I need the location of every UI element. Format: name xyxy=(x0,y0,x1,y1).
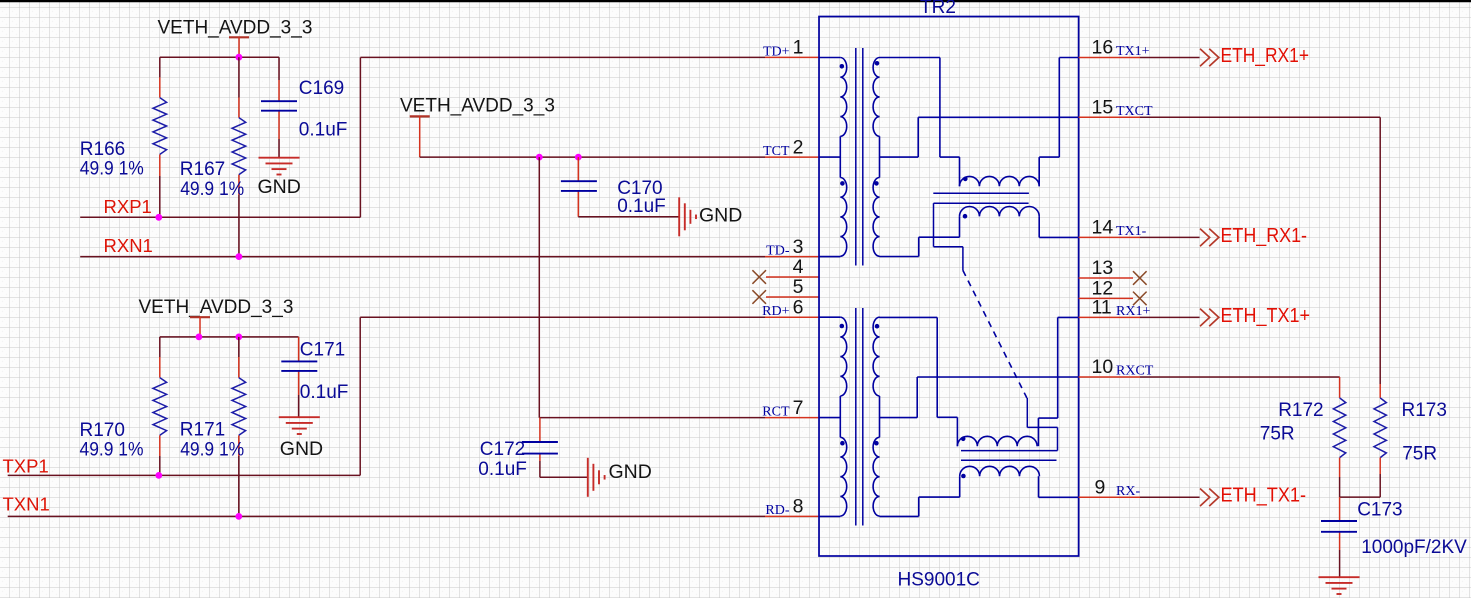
shield line lower xyxy=(1026,398,1028,427)
svg-text:GND: GND xyxy=(609,461,652,483)
resistor R173 body xyxy=(1374,398,1386,458)
svg-text:VETH_AVDD_3_3: VETH_AVDD_3_3 xyxy=(400,96,555,117)
secondary winding upper xyxy=(873,58,879,137)
wire TXP1 riser to RD+ xyxy=(359,317,361,475)
svg-text:7: 7 xyxy=(793,397,804,419)
svg-text:RD+: RD+ xyxy=(762,304,789,319)
resistor R170 body xyxy=(153,378,167,436)
wire R172/R173 bottom junction xyxy=(1340,496,1381,498)
resistor R172 bottom pin xyxy=(1339,458,1341,477)
junction dot TCT/C172 branch xyxy=(536,154,543,161)
wire RCT rail xyxy=(539,417,765,419)
svg-text:75R: 75R xyxy=(1260,424,1295,445)
svg-text:0.1uF: 0.1uF xyxy=(300,382,349,403)
choke core line lower xyxy=(961,459,1057,461)
wire primary bottom to pin3 xyxy=(839,255,841,257)
svg-text:VETH_AVDD_3_3: VETH_AVDD_3_3 xyxy=(139,297,294,318)
svg-text:6: 6 xyxy=(793,296,804,318)
svg-text:5: 5 xyxy=(793,276,804,298)
winding dot secondary upper xyxy=(875,61,880,66)
capacitor C172 pins xyxy=(539,418,541,442)
ground symbol GND rotated (C172) xyxy=(587,458,589,497)
wire secondary bottom to choke B xyxy=(880,256,919,258)
wire choke to pin16 xyxy=(1038,157,1040,186)
svg-text:TD+: TD+ xyxy=(763,44,790,59)
choke winding TX1+ (upper) xyxy=(960,176,1040,186)
resistor R167 body xyxy=(232,118,246,175)
svg-text:0.1uF: 0.1uF xyxy=(478,459,527,480)
wire RXP1 xyxy=(80,216,360,218)
no-connect X pin 13 xyxy=(1133,271,1147,285)
primary straight section xyxy=(839,136,841,177)
resistor R170 pins xyxy=(159,337,161,357)
choke core line upper xyxy=(933,192,1029,194)
pin 8 stub xyxy=(765,515,819,517)
svg-text:4: 4 xyxy=(793,256,804,278)
transformer core lines upper xyxy=(855,48,857,266)
pin 10 stub and RXCT wire xyxy=(1079,376,1140,378)
wire pin6 to primary (lower) xyxy=(819,316,840,318)
wire choke B to pin9 xyxy=(1038,476,1040,497)
no-connect X pin 5 xyxy=(752,290,766,304)
svg-text:3: 3 xyxy=(793,236,804,258)
choke winding TX1- (lower) xyxy=(960,207,1040,217)
winding dot secondary lower xyxy=(874,181,879,186)
pin 5 stub xyxy=(766,296,819,298)
winding dot choke RX1+ xyxy=(961,437,966,442)
capacitor C169 pins xyxy=(278,57,280,80)
winding dot primary upper xyxy=(840,64,845,69)
wire TD+ to pin1 xyxy=(360,56,765,58)
transformer core lines lower xyxy=(855,308,857,526)
svg-text:RCT: RCT xyxy=(762,404,790,419)
capacitor C171 plates xyxy=(281,360,317,362)
capacitor C170 pins xyxy=(577,157,579,181)
svg-text:HS9001C: HS9001C xyxy=(898,570,980,591)
ground symbol GND (C169) xyxy=(259,157,300,159)
winding dot primary lower (lower tx) xyxy=(840,441,845,446)
svg-text:TD-: TD- xyxy=(766,243,790,258)
primary straight section (lower) xyxy=(839,396,841,437)
dashed shield link xyxy=(963,270,1027,398)
resistor R171 pins xyxy=(238,337,240,357)
svg-text:16: 16 xyxy=(1092,37,1114,59)
capacitor C172 plates xyxy=(522,441,558,443)
ground symbol GND rotated (C170) xyxy=(678,197,680,236)
ground symbol GND (C173) xyxy=(1319,576,1360,578)
wire secondary bottom to choke B (lower) xyxy=(880,515,919,517)
secondary straight section xyxy=(879,136,881,177)
svg-text:2: 2 xyxy=(793,136,804,158)
svg-text:ETH_RX1+: ETH_RX1+ xyxy=(1221,45,1310,67)
svg-text:R166: R166 xyxy=(80,139,125,160)
resistor R171 body xyxy=(232,378,246,436)
primary winding upper (RD+/RCT) xyxy=(840,317,846,396)
wire secondary CT to pin10 xyxy=(880,417,918,419)
wire C172 branch vertical xyxy=(538,157,540,418)
svg-text:1000pF/2KV: 1000pF/2KV xyxy=(1361,537,1467,558)
secondary straight section (lower tx) xyxy=(879,396,881,437)
resistor R167 pins xyxy=(238,57,240,97)
secondary winding lower (lower tx) xyxy=(873,437,879,516)
shield line upper xyxy=(934,202,1029,204)
pin 11 stub and ETH_TX1+ port xyxy=(1079,316,1140,318)
wire RXN1 to pin3 xyxy=(80,256,765,258)
junction dot RXN1/R167 xyxy=(236,253,243,260)
pin 16 stub and ETH_RX1+ port xyxy=(1079,57,1140,59)
svg-text:C171: C171 xyxy=(300,339,345,360)
no-connect X pin 12 xyxy=(1133,292,1147,306)
wire RXP1 riser to TD+ xyxy=(359,57,361,217)
junction dot TCT/C170 xyxy=(575,154,582,161)
junction dot rail/R171 xyxy=(235,334,242,341)
svg-text:49.9 1%: 49.9 1% xyxy=(180,179,244,200)
junction dot RXP1/R166 xyxy=(155,214,162,221)
svg-text:ETH_TX1+: ETH_TX1+ xyxy=(1221,305,1311,327)
pin 13 stub xyxy=(1079,277,1133,279)
svg-text:R167: R167 xyxy=(180,159,225,180)
transformer TR2 outline box xyxy=(819,17,1079,557)
svg-text:GND: GND xyxy=(699,205,742,227)
wire secondary top to choke (lower) xyxy=(880,316,938,318)
power symbol VETH_AVDD_3_3 bar (middle) xyxy=(410,115,430,117)
svg-text:ETH_RX1-: ETH_RX1- xyxy=(1221,225,1308,247)
pin 1 stub xyxy=(765,56,819,58)
pin 6 stub xyxy=(765,316,819,318)
svg-text:75R: 75R xyxy=(1402,443,1437,464)
svg-text:VETH_AVDD_3_3: VETH_AVDD_3_3 xyxy=(158,18,313,39)
wire TXP1 xyxy=(8,474,361,476)
svg-text:RXP1: RXP1 xyxy=(104,196,152,217)
wire choke B to pin14 xyxy=(1038,216,1040,237)
resistor R173 bottom pin xyxy=(1379,458,1381,474)
pin 9 stub and ETH_TX1- port xyxy=(1079,496,1140,498)
winding dot choke TX1+ xyxy=(963,177,968,182)
no-connect X pin 4 xyxy=(752,270,766,284)
power symbol VETH_AVDD_3_3 bar (lower) xyxy=(190,316,210,318)
wire TXCT riser to R173 xyxy=(1379,117,1381,384)
junction dot rail/VETH pin (lower) xyxy=(196,334,203,341)
capacitor C170 plates xyxy=(561,180,597,182)
wire C172 to ground xyxy=(540,476,588,478)
svg-text:9: 9 xyxy=(1095,477,1106,499)
winding dot primary upper (lower tx) xyxy=(840,324,845,329)
pin 14 stub and ETH_RX1- port xyxy=(1079,236,1140,238)
wire TXN1 to pin8 xyxy=(8,515,765,517)
wire VETH rail lower xyxy=(160,336,299,338)
winding dot primary lower xyxy=(840,181,845,186)
capacitor C171 pins xyxy=(298,337,300,362)
wire VETH rail upper xyxy=(160,56,279,58)
power symbol VETH_AVDD_3_3 bar (upper) xyxy=(229,36,249,38)
winding dot choke RX- xyxy=(961,474,966,479)
svg-text:8: 8 xyxy=(793,496,804,518)
resistor R166 pins xyxy=(159,57,161,77)
capacitor C173 plates xyxy=(1321,520,1357,522)
winding dot secondary upper (lower tx) xyxy=(875,324,880,329)
svg-text:15: 15 xyxy=(1092,97,1114,119)
svg-text:11: 11 xyxy=(1092,297,1112,319)
secondary winding upper (lower tx) xyxy=(873,317,879,396)
svg-text:C173: C173 xyxy=(1357,500,1402,521)
svg-text:C172: C172 xyxy=(480,439,525,460)
svg-text:TXP1: TXP1 xyxy=(3,456,49,477)
wire RD+ to pin6 xyxy=(360,316,765,318)
pin 7 stub xyxy=(765,417,819,419)
junction dot rail/R167 xyxy=(236,54,243,61)
wire secondary top to choke xyxy=(880,57,940,59)
resistor R172 body xyxy=(1333,398,1345,458)
choke winding RX- (lower lower) xyxy=(960,466,1040,476)
svg-text:49.9 1%: 49.9 1% xyxy=(180,440,244,461)
pin 12 stub xyxy=(1079,297,1133,299)
choke winding RX1+ (lower upper) xyxy=(957,436,1037,446)
svg-text:TR2: TR2 xyxy=(920,0,956,18)
svg-text:49.9 1%: 49.9 1% xyxy=(80,159,144,180)
wire RXCT to R172 xyxy=(1339,377,1341,398)
primary winding upper (TD+/TCT) xyxy=(840,58,846,137)
svg-text:R171: R171 xyxy=(180,420,225,441)
svg-text:0.1uF: 0.1uF xyxy=(617,196,666,217)
primary winding lower (TCT/TD-) xyxy=(840,178,846,257)
svg-text:GND: GND xyxy=(258,176,301,198)
capacitor C169 plates xyxy=(261,100,297,102)
capacitor C173 pins xyxy=(1339,497,1341,521)
wire pin1 to primary xyxy=(819,57,840,59)
pin 15 stub and TXCT wire xyxy=(1079,116,1140,118)
secondary winding lower xyxy=(873,178,879,257)
resistor R166 body xyxy=(153,98,167,155)
wire TCT rail xyxy=(420,156,765,158)
winding dot secondary lower (lower tx) xyxy=(874,441,879,446)
svg-text:0.1uF: 0.1uF xyxy=(299,119,348,140)
wire primary bottom to pin8 xyxy=(839,515,841,517)
wire secondary CT to pin15 xyxy=(880,156,919,158)
wire pin2 TCT tap xyxy=(819,156,840,158)
svg-text:GND: GND xyxy=(280,438,323,460)
svg-text:TCT: TCT xyxy=(763,144,790,159)
svg-text:R170: R170 xyxy=(80,420,125,441)
svg-text:10: 10 xyxy=(1092,356,1114,378)
svg-text:14: 14 xyxy=(1092,217,1114,239)
pin 4 stub xyxy=(766,276,819,278)
primary winding lower (RCT/RD-) xyxy=(840,437,846,516)
svg-text:C169: C169 xyxy=(299,78,344,99)
pin 2 stub xyxy=(765,156,819,158)
winding dot choke TX1- xyxy=(963,214,968,219)
svg-text:1: 1 xyxy=(793,37,804,59)
svg-text:R173: R173 xyxy=(1402,400,1447,421)
svg-text:R172: R172 xyxy=(1278,400,1323,421)
ground symbol GND (C171) xyxy=(279,416,320,418)
junction dot TXN1/R171 xyxy=(235,513,242,520)
junction dot TXP1/R170 xyxy=(155,472,162,479)
top border xyxy=(0,0,1471,2)
svg-text:RD-: RD- xyxy=(765,503,789,518)
wire choke to pin11 xyxy=(1037,418,1039,446)
wire C170 to ground xyxy=(578,216,679,218)
svg-text:TXN1: TXN1 xyxy=(3,494,50,515)
pin 3 stub xyxy=(765,256,819,258)
svg-text:13: 13 xyxy=(1092,257,1114,279)
wire pin7 RCT tap xyxy=(819,417,840,419)
svg-text:RXN1: RXN1 xyxy=(104,235,153,256)
svg-text:ETH_TX1-: ETH_TX1- xyxy=(1221,485,1307,507)
svg-text:49.9 1%: 49.9 1% xyxy=(80,440,144,461)
